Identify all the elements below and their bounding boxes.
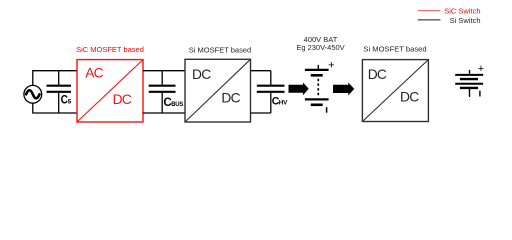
battery BT2 (output cell) <box>455 63 484 97</box>
legend SiC Switch (red line) <box>418 7 481 16</box>
svg-text:DC: DC <box>400 89 419 104</box>
svg-text:Si MOSFET based: Si MOSFET based <box>363 44 426 53</box>
wire bottom rail left <box>33 103 77 113</box>
wire top rail mid <box>143 70 185 72</box>
svg-text:SiC Switch: SiC Switch <box>444 7 480 16</box>
legend Si Switch (black line) <box>418 16 481 25</box>
wire bottom stub right of U2 <box>251 112 271 114</box>
svg-text:Si MOSFET based: Si MOSFET based <box>189 45 251 54</box>
svg-text:SiC MOSFET based: SiC MOSFET based <box>76 45 144 54</box>
svg-text:CBUS: CBUS <box>163 95 183 109</box>
battery BT1 400V pack <box>305 60 335 113</box>
svg-text:+: + <box>478 63 484 75</box>
svg-text:Eg 230V-450V: Eg 230V-450V <box>296 43 344 52</box>
svg-text:DC: DC <box>221 90 240 105</box>
wire bottom rail mid <box>143 112 185 114</box>
capacitor Cs <box>47 71 72 113</box>
svg-text:CHV: CHV <box>272 95 288 107</box>
svg-text:DC: DC <box>368 67 387 82</box>
converter block U3 DC/DC (Si) <box>362 60 428 122</box>
AC source V1 <box>24 85 42 103</box>
svg-text:DC: DC <box>192 67 211 82</box>
svg-text:Cs: Cs <box>61 94 72 107</box>
svg-text:AC: AC <box>85 66 103 81</box>
wire top rail left <box>33 71 77 86</box>
capacitor CHV <box>257 71 288 113</box>
svg-text:Si Switch: Si Switch <box>450 16 481 25</box>
wire top stub right of U2 <box>251 70 271 72</box>
svg-text:DC: DC <box>113 92 132 107</box>
arrow from battery <box>333 83 354 96</box>
capacitor CBUS <box>149 71 184 113</box>
converter block U2 DC/DC (Si) <box>185 59 251 122</box>
arrow to battery <box>289 83 309 96</box>
converter block U1 AC/DC (SiC) <box>77 60 143 122</box>
svg-text:+: + <box>328 60 334 72</box>
